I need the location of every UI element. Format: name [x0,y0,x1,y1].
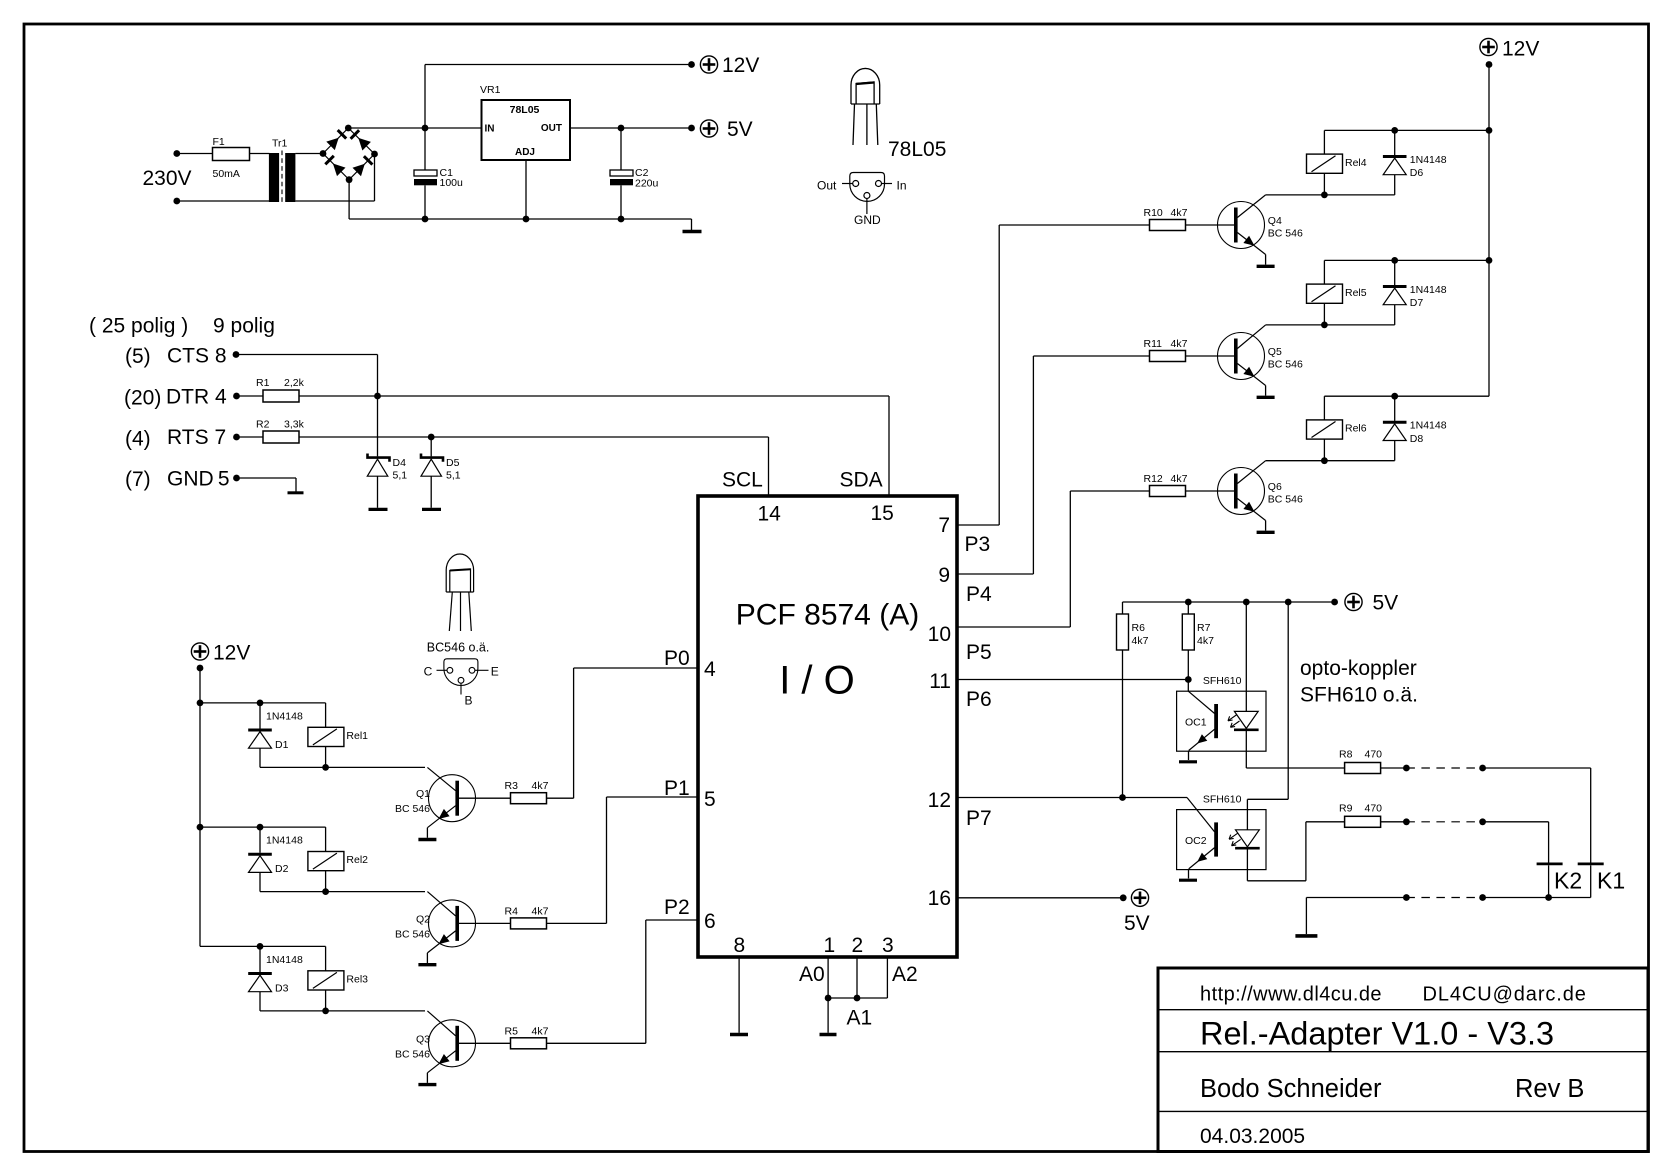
svg-text:B: B [465,694,473,708]
transistor Q4 BC 546 [1218,202,1265,249]
svg-text:04.03.2005: 04.03.2005 [1200,1125,1305,1148]
node D6 top junction [1391,127,1398,134]
svg-text:8: 8 [734,934,746,957]
svg-text:4k7: 4k7 [1132,635,1149,647]
resistor R9 470 [1345,816,1381,827]
svg-text:Rev B: Rev B [1515,1075,1584,1103]
wire fuse to transformer [250,153,270,155]
node DTR / D4 junction [374,393,381,400]
svg-text:P0: P0 [664,647,690,670]
BC546 pin C [447,667,453,673]
svg-text:Q4: Q4 [1268,215,1282,227]
svg-text:D3: D3 [275,982,289,994]
diode D8 1N4148 [1394,396,1396,421]
bridge diode top-right [358,138,371,151]
node P6 / R7 junction [1185,676,1192,683]
transistor Q2 BC 546 [429,900,476,947]
svg-text:IN: IN [485,124,495,135]
svg-text:D5: D5 [446,457,460,469]
resistor R3 4k7 [511,793,547,804]
wire Q4 collector to Rel4/D6 junction [1266,194,1395,196]
svg-text:R3: R3 [505,780,519,792]
svg-text:Q3: Q3 [416,1033,430,1045]
svg-text:12V: 12V [213,642,250,665]
transistor Q3 BC 546 [429,1020,476,1067]
transistor Q5 BC 546 [1218,333,1265,380]
svg-text:5V: 5V [1124,912,1150,935]
wire R5 to P2 riser [547,1042,646,1044]
svg-text:Rel.-Adapter V1.0 - V3.3: Rel.-Adapter V1.0 - V3.3 [1200,1016,1554,1052]
78L05 package legs [853,104,855,145]
wire R8 to K1 [1381,767,1407,769]
svg-text:Out: Out [817,179,837,193]
node A1 junction [854,995,861,1002]
svg-text:P6: P6 [966,688,992,711]
svg-text:P7: P7 [966,807,992,830]
svg-text:ADJ: ADJ [515,147,535,158]
svg-text:R6: R6 [1132,622,1146,634]
svg-text:Bodo Schneider: Bodo Schneider [1200,1075,1382,1103]
svg-text:C: C [424,665,433,679]
svg-text:D4: D4 [393,457,407,469]
relay Rel4 [1323,130,1325,154]
svg-text:Rel1: Rel1 [346,730,368,742]
svg-text:5: 5 [704,788,716,811]
resistor R12 4k7 [1150,486,1186,497]
svg-text:78L05: 78L05 [510,104,540,116]
svg-text:4k7: 4k7 [532,780,549,792]
svg-text:3: 3 [882,934,894,957]
diode D3 1N4148 [259,946,261,972]
svg-text:Q2: Q2 [416,913,430,925]
node 12V left dot [197,665,204,672]
opto OC2 LED [1236,830,1260,847]
ground pin8 [730,1033,748,1036]
node Rel4 bottom junction [1321,192,1328,199]
svg-text:P2: P2 [664,896,690,919]
wire rail Rel4 [1324,129,1489,131]
connector K2 contact [1537,863,1563,866]
node 12V right dot [1486,61,1493,68]
node pin16 5V terminal dot [1120,894,1127,901]
wire pin7 to R10 [957,524,999,526]
svg-text:I / O: I / O [779,659,855,703]
svg-text:12: 12 [928,789,951,812]
svg-text:D6: D6 [1410,167,1424,179]
fuse F1 50mA [213,148,250,161]
78L05 Out lead and label [842,183,853,185]
svg-text:(7): (7) [125,468,151,491]
svg-text:5,1: 5,1 [446,470,461,482]
wire 12V left riser [199,668,201,946]
svg-text:4k7: 4k7 [1197,635,1214,647]
node Rel1 bottom junction [322,764,329,771]
resistor R1 2,2k [237,395,264,397]
svg-text:230V: 230V [143,167,192,190]
wire pin10 to R12 [957,626,1070,628]
wire 5V to OC2 LED anode [1287,602,1289,799]
svg-text:2: 2 [852,934,864,957]
svg-text:1N4148: 1N4148 [266,711,303,723]
svg-text:R7: R7 [1197,622,1211,634]
resistor R5 4k7 [511,1038,547,1049]
relay Rel3 [325,946,327,970]
svg-text:12V: 12V [1502,38,1539,61]
svg-text:11: 11 [929,670,951,693]
title block box [1158,968,1648,1152]
svg-text:1N4148: 1N4148 [1410,284,1447,296]
svg-text:R4: R4 [505,905,519,917]
resistor R6 4k7 [1122,602,1124,614]
svg-text:12V: 12V [722,54,759,77]
svg-text:Tr1: Tr1 [272,138,288,150]
svg-text:K1: K1 [1597,868,1625,894]
svg-text:6: 6 [704,910,716,933]
resistor R2 3,3k [237,436,264,438]
svg-text:D7: D7 [1410,297,1424,309]
wire VR1 OUT to 5V [570,127,692,129]
svg-text:5V: 5V [727,118,753,141]
wire R9 to K2 [1381,821,1407,823]
svg-text:4k7: 4k7 [532,1025,549,1037]
svg-text:OC1: OC1 [1185,717,1207,729]
wire pin1 A0 to ground [827,957,829,1033]
voltage regulator VR1 78L05 [482,100,571,160]
node VR1 input junction [422,125,429,132]
svg-text:R1: R1 [256,377,270,389]
svg-text:P5: P5 [966,641,992,664]
capacitor C2 220u [620,128,622,170]
diode D1 1N4148 [259,703,261,729]
node 230V top terminal [173,150,180,157]
svg-text:Rel5: Rel5 [1345,287,1367,299]
node Rel6 bottom junction [1321,457,1328,464]
node K2 ground junction [1545,894,1552,901]
svg-text:PCF 8574 (A): PCF 8574 (A) [736,599,919,632]
node bridge top [345,125,352,132]
wire GND pin to ground [237,477,297,479]
wire D1/Rel1 junction to Q1 collector [260,766,425,768]
wire VR1 ADJ to ground [525,160,527,219]
bridge diode top-left [326,138,338,150]
wire 230V top to fuse [177,153,213,155]
wire pin8 to ground [738,957,740,1033]
relay Rel6 [1323,396,1325,420]
opto OC2 phototransistor [1187,798,1215,832]
svg-text:VR1: VR1 [480,84,501,96]
node rail Rel1 at riser [197,700,204,707]
node rail Rel2 at riser [197,824,204,831]
svg-text:R9: R9 [1339,802,1353,814]
wire rail Rel6 [1324,395,1489,397]
node C2 top junction [618,125,625,132]
node Rel3 bottom junction [322,1008,329,1015]
svg-text:SFH610: SFH610 [1203,794,1242,806]
resistor R10 4k7 [1150,220,1186,231]
wire OC2 LED cathode to R9 [1246,848,1248,880]
svg-text:100u: 100u [440,177,464,189]
node C1 ground junction [422,216,429,223]
svg-text:9 polig: 9 polig [213,315,275,338]
svg-text:1N4148: 1N4148 [1410,154,1447,166]
svg-text:R12: R12 [1144,473,1163,485]
wire Q5 collector to Rel5/D7 junction [1266,324,1395,326]
opto OC1 LED [1234,711,1258,728]
transistor Q6 BC 546 [1218,468,1265,515]
svg-text:DTR 4: DTR 4 [166,386,227,409]
IC U1 PCF 8574 box [698,496,957,957]
svg-text:R5: R5 [505,1025,519,1037]
BC546 pin E [469,667,475,673]
svg-text:BC546 o.ä.: BC546 o.ä. [427,641,490,655]
wire rail Rel2 [200,826,326,828]
78L05 pin Out [853,181,859,187]
transformer Tr1 [269,153,279,202]
opto OC2 light arrows [1229,833,1238,839]
wire pin11 P6 to OC1 [957,679,1188,681]
diode D6 1N4148 [1394,130,1396,155]
BC546 package front view [446,554,473,592]
resistor R11 4k7 [1150,351,1186,362]
wire 12V top rail [425,64,692,66]
svg-text:OC2: OC2 [1185,835,1207,847]
svg-text:A2: A2 [892,963,918,986]
wire P1 pin5 [607,796,699,798]
node 12V riser at Rel4 rail [1486,127,1493,134]
svg-text:CTS 8: CTS 8 [167,345,227,368]
wire 5V to OC1 LED anode [1245,602,1247,711]
svg-text:Q1: Q1 [416,788,430,800]
transistor Q1 BC 546 [429,775,476,822]
svg-text:14: 14 [758,503,782,526]
ground A0 [820,1033,837,1036]
wire R7 junction into OC1 [1187,680,1189,692]
node D2 top junction [257,824,264,831]
bridge diode bottom-left [333,164,346,177]
connector K1 contact [1578,863,1604,866]
zener diode D4 5,1 [368,454,390,462]
svg-text:P4: P4 [966,583,992,606]
svg-text:D8: D8 [1410,433,1424,445]
svg-text:1N4148: 1N4148 [266,954,303,966]
diode D2 1N4148 [259,827,261,853]
svg-text:16: 16 [928,887,951,910]
node D8 top junction [1391,393,1398,400]
ground psu [691,219,693,230]
wire K ground line [1306,897,1406,899]
svg-text:4k7: 4k7 [532,905,549,917]
node 5V rail at OC1 led [1243,599,1250,606]
capacitor C1 100u [424,128,426,170]
svg-text:50mA: 50mA [213,168,240,180]
opto OC1 light arrows [1228,715,1237,721]
wire pin12 P7 to OC2 [957,797,1187,799]
wire 12V right riser [1488,65,1490,397]
wire 12V riser [424,65,426,129]
svg-text:SDA: SDA [840,469,883,492]
svg-text:Q6: Q6 [1268,481,1282,493]
node 5V rail at R7 [1185,599,1192,606]
svg-text:D2: D2 [275,863,289,875]
svg-text:R2: R2 [256,419,270,431]
78L05 pin GND [864,193,870,199]
svg-text:http://www.dl4cu.de: http://www.dl4cu.de [1200,984,1382,1006]
bridge diode bottom-right [353,164,365,176]
svg-text:78L05: 78L05 [888,138,946,161]
relay Rel5 [1323,260,1325,284]
wire OC1 LED cathode to R8 [1245,730,1247,768]
wire bridge bottom to ground rail [348,180,350,219]
terminal +12V right [1480,38,1497,55]
svg-text:3,3k: 3,3k [284,419,305,431]
svg-text:470: 470 [1365,802,1383,814]
svg-text:Rel4: Rel4 [1345,157,1367,169]
node 12V riser at Rel5 rail [1486,257,1493,264]
opto OC1 phototransistor [1188,691,1214,713]
wire pin9 to R11 [957,573,1033,575]
svg-text:R11: R11 [1144,338,1163,350]
relay Rel2 [325,827,327,851]
svg-text:15: 15 [871,502,894,525]
node D3 top junction [257,943,264,950]
wire pin3 A2 [886,957,888,998]
wire rail Rel5 [1324,259,1489,261]
BC546 C lead and label [437,669,448,671]
svg-text:1N4148: 1N4148 [266,835,303,847]
svg-text:Rel2: Rel2 [346,854,368,866]
node C2 ground junction [618,216,625,223]
wire DTR line to SDA [299,395,889,397]
node D7 top junction [1391,257,1398,264]
78L05 package front view [851,68,880,104]
78L05 In lead and label [882,183,893,185]
wire ground rail [349,218,691,220]
svg-text:E: E [491,665,499,679]
svg-text:BC 546: BC 546 [395,1048,430,1060]
svg-text:K2: K2 [1554,868,1582,894]
svg-text:4: 4 [704,658,716,681]
node A0 junction [825,995,832,1002]
BC546 E lead and label [475,669,489,671]
svg-text:OUT: OUT [541,123,562,134]
svg-text:10: 10 [928,623,951,646]
svg-text:D1: D1 [275,739,289,751]
svg-text:SCL: SCL [722,469,763,492]
relay Rel1 [325,703,327,727]
svg-text:BC 546: BC 546 [1268,359,1303,371]
ground rs232 [288,491,304,494]
svg-text:BC 546: BC 546 [395,928,430,940]
diode D7 1N4148 [1394,260,1396,285]
terminal +5V top [700,120,717,137]
node bridge left [320,150,327,157]
svg-text:GND 5: GND 5 [167,468,230,491]
svg-text:( 25 polig ): ( 25 polig ) [89,315,188,338]
node 230V bottom terminal [173,198,180,205]
78L05 bottom view body [850,173,885,202]
node Rel5 bottom junction [1321,322,1328,329]
wire R3 to P0 riser [547,797,574,799]
wire pin16 to 5V [957,897,1123,899]
node 5V rail at OC2 led [1285,599,1292,606]
svg-text:SFH610 o.ä.: SFH610 o.ä. [1300,684,1418,707]
svg-text:4k7: 4k7 [1171,338,1188,350]
svg-text:P3: P3 [965,533,991,556]
node bridge right [371,151,378,158]
svg-text:Rel3: Rel3 [346,974,368,986]
svg-text:BC 546: BC 546 [1268,228,1303,240]
wire SDA riser [888,396,890,496]
svg-text:opto-koppler: opto-koppler [1300,657,1417,680]
terminal +12V top [700,56,717,73]
svg-text:A0: A0 [799,963,825,986]
terminal +5V rail [1345,593,1362,610]
node 12V terminal dot [688,61,695,68]
78L05 pin In [876,181,882,187]
svg-text:In: In [897,179,907,193]
wire bridge top to VR1 input [348,127,481,129]
node 5V terminal dot [688,125,695,132]
wire transformer secondary bottom to bridge right [295,200,374,202]
node ADJ ground junction [523,216,530,223]
node bridge bottom [346,176,353,183]
node 5V rail terminal dot [1331,599,1338,606]
wire D3/Rel3 junction to Q3 collector [260,1010,425,1012]
svg-text:1N4148: 1N4148 [1410,420,1447,432]
svg-text:A1: A1 [847,1007,873,1030]
svg-text:SFH610: SFH610 [1203,675,1242,687]
svg-text:(20): (20) [124,387,161,410]
svg-text:R10: R10 [1144,207,1163,219]
svg-text:5V: 5V [1373,592,1399,615]
svg-text:2,2k: 2,2k [284,377,305,389]
resistor R7 4k7 [1187,602,1189,614]
svg-text:1: 1 [824,934,836,957]
BC546 bottom view body [444,659,478,686]
ground K return [1295,934,1317,938]
svg-text:DL4CU@darc.de: DL4CU@darc.de [1423,984,1587,1006]
node D1 top junction [257,700,264,707]
svg-text:BC 546: BC 546 [395,803,430,815]
svg-text:GND: GND [854,213,881,227]
wire Q6 collector to Rel6/D8 junction [1266,460,1395,462]
bridge rectifier [323,128,375,180]
node RTS / D5 junction [428,434,435,441]
node P7 / R6 junction [1119,794,1126,801]
wire rail Rel3 [200,945,326,947]
svg-text:F1: F1 [213,136,225,148]
wire R4 to P1 riser [547,922,607,924]
wire 230V bottom to transformer [177,200,270,202]
svg-text:220u: 220u [635,178,659,190]
svg-text:7: 7 [938,514,950,537]
resistor R8 470 [1345,763,1381,774]
resistor R4 4k7 [511,918,547,929]
node Rel2 bottom junction [322,888,329,895]
svg-text:5,1: 5,1 [393,470,408,482]
svg-text:470: 470 [1365,749,1383,761]
svg-text:(4): (4) [125,428,151,451]
svg-text:Rel6: Rel6 [1345,423,1367,435]
svg-text:4k7: 4k7 [1171,207,1188,219]
BC546 pin B [458,677,464,683]
wire P2 pin6 [646,919,698,921]
wire pin2 A1 [856,957,858,998]
wire P0 pin4 [574,667,698,669]
svg-text:RTS 7: RTS 7 [167,426,226,449]
wire D2/Rel2 junction to Q2 collector [260,891,425,893]
BC546 package legs [449,592,452,631]
